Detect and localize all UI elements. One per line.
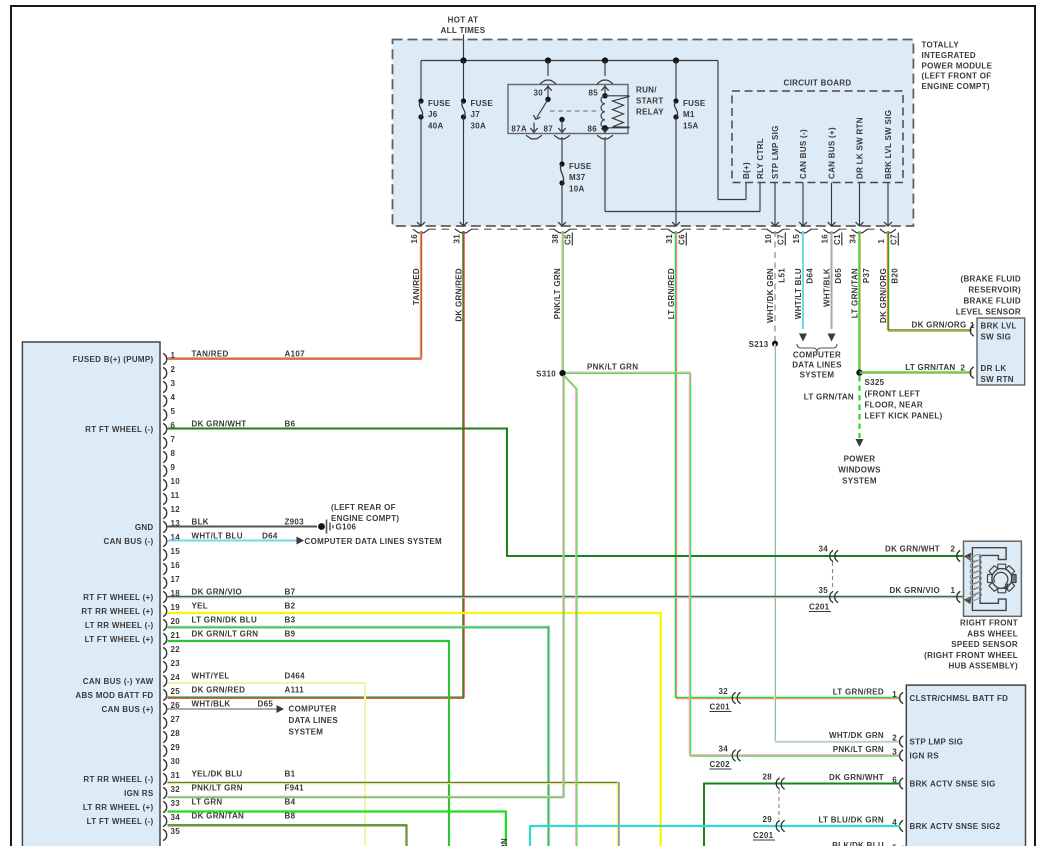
- TIPM name label: [922, 41, 993, 92]
- svg-text:30: 30: [171, 757, 181, 766]
- svg-text:2: 2: [951, 545, 956, 554]
- svg-text:FUSED B(+) (PUMP): FUSED B(+) (PUMP): [73, 355, 154, 364]
- svg-text:(LEFT REAR OF: (LEFT REAR OF: [331, 503, 396, 512]
- svg-text:LT GRN/DK BLU: LT GRN/DK BLU: [192, 615, 258, 624]
- relay coil terminal 86: [588, 125, 614, 139]
- relay terminal 87A: [511, 123, 542, 139]
- svg-text:85: 85: [589, 89, 599, 98]
- svg-text:DK GRN/ORG: DK GRN/ORG: [912, 321, 967, 330]
- svg-text:J7: J7: [471, 110, 481, 119]
- computer data lines system brace and label (top): [792, 344, 842, 380]
- svg-text:FUSE: FUSE: [683, 99, 706, 108]
- wire bus to B(+) of circuit board: [718, 61, 746, 200]
- wire label LT GRN/RED: [667, 268, 676, 319]
- svg-text:15A: 15A: [683, 122, 699, 131]
- circuit board pin label B(+): [742, 162, 751, 179]
- ABS module pin 19: [81, 601, 295, 616]
- svg-text:11: 11: [171, 491, 180, 500]
- junction block pin 4 BRK ACTV SNSE SIG2: [818, 815, 1000, 831]
- wire WHT/DK GRN dashed from TIPM 10 to S213: [774, 231, 776, 344]
- svg-text:RT RR WHEEL (-): RT RR WHEEL (-): [83, 775, 153, 784]
- svg-text:WHT/BLK: WHT/BLK: [192, 699, 231, 708]
- wire WHT/LT BLU pin14 to computer data lines: [168, 537, 442, 547]
- svg-text:34: 34: [719, 745, 729, 754]
- svg-text:(RIGHT FRONT WHEEL: (RIGHT FRONT WHEEL: [924, 651, 1018, 660]
- wire DK GRN/WHT offpage to pin6 BRK ACTV SNSE SIG: [704, 773, 901, 846]
- svg-text:SYSTEM: SYSTEM: [289, 728, 324, 737]
- svg-text:C5: C5: [564, 234, 573, 245]
- svg-text:PNK/LT GRN: PNK/LT GRN: [192, 783, 243, 792]
- svg-text:FUSE: FUSE: [471, 99, 494, 108]
- svg-text:LT GRN/TAN: LT GRN/TAN: [905, 363, 955, 372]
- circuit board pin label STP LMP SIG: [771, 125, 780, 179]
- svg-text:BRK ACTV SNSE SIG2: BRK ACTV SNSE SIG2: [910, 822, 1001, 831]
- fuse M1 15A: [672, 61, 706, 227]
- ABS module pin 15: [163, 547, 180, 561]
- splice S325: [856, 369, 942, 420]
- TIPM connector pin 15: [792, 229, 811, 243]
- wire DK GRN/VIO pin18 to RF wheel speed sensor pin1: [168, 586, 964, 598]
- svg-text:(FRONT LEFT: (FRONT LEFT: [865, 390, 921, 399]
- wire WHT/YEL pin24 down: [168, 682, 366, 846]
- svg-text:LT BLU/DK GRN: LT BLU/DK GRN: [818, 815, 884, 824]
- wire DK GRN/RED from TIPM 31 to ABS pin 25: [168, 231, 465, 698]
- svg-text:S213: S213: [749, 340, 769, 349]
- wheel sensor pin arcs: [957, 550, 960, 603]
- svg-text:GND: GND: [135, 523, 154, 532]
- ABS module pin 5: [163, 407, 175, 421]
- svg-text:SYSTEM: SYSTEM: [800, 371, 835, 380]
- ABS module pin 20: [85, 615, 296, 630]
- svg-text:23: 23: [171, 659, 181, 668]
- svg-text:C201: C201: [753, 831, 774, 840]
- svg-text:LT GRN/TAN: LT GRN/TAN: [850, 268, 859, 318]
- wire WHT/LT BLU from TIPM 15 to computer data lines: [799, 231, 807, 342]
- wire LT GRN/DK BLU pin20 down: [168, 626, 550, 846]
- svg-text:IGN RS: IGN RS: [124, 789, 154, 798]
- wire label WHT/DK GRN L51: [766, 268, 787, 323]
- svg-text:C6: C6: [678, 234, 687, 245]
- svg-text:LT GRN/RED: LT GRN/RED: [667, 268, 676, 319]
- svg-text:C7: C7: [777, 234, 786, 245]
- ABS module pin 17: [163, 575, 180, 589]
- svg-text:27: 27: [171, 715, 181, 724]
- svg-text:INTEGRATED: INTEGRATED: [922, 51, 976, 60]
- svg-text:RLY CTRL: RLY CTRL: [756, 138, 765, 179]
- svg-text:IGN RS: IGN RS: [910, 751, 940, 760]
- svg-text:31: 31: [453, 234, 462, 244]
- circuit board output wires to TIPM connector: [771, 183, 779, 227]
- wire BLK pin13 to ground G106: [168, 526, 318, 528]
- svg-text:DK GRN/ORG: DK GRN/ORG: [879, 268, 888, 323]
- svg-text:15: 15: [792, 234, 801, 244]
- junction dots on bus: [460, 57, 679, 63]
- TIPM connector pin 16: [410, 229, 429, 243]
- ABS module pin 25: [75, 685, 304, 700]
- svg-text:SW SIG: SW SIG: [981, 333, 1012, 342]
- wire label BLK/DK BLU (partial bottom): [832, 841, 903, 846]
- ABS module pin 10: [163, 477, 180, 491]
- svg-text:87: 87: [544, 125, 554, 134]
- svg-text:28: 28: [763, 773, 773, 782]
- wire label PNK/LT GRN: [553, 268, 562, 319]
- ABS module pin 11: [163, 491, 180, 505]
- svg-text:WHT/DK GRN: WHT/DK GRN: [829, 731, 884, 740]
- svg-text:29: 29: [171, 743, 181, 752]
- svg-text:LEVEL SENSOR: LEVEL SENSOR: [956, 308, 1021, 317]
- svg-text:SW RTN: SW RTN: [981, 375, 1014, 384]
- svg-text:D64: D64: [262, 531, 278, 540]
- svg-text:10: 10: [764, 234, 773, 244]
- svg-text:LT FT WHEEL (+): LT FT WHEEL (+): [85, 635, 154, 644]
- svg-text:1: 1: [892, 690, 897, 699]
- svg-text:STP LMP SIG: STP LMP SIG: [771, 125, 780, 179]
- svg-text:87A: 87A: [511, 125, 527, 134]
- wire DK GRN/TAN pin34 down: [168, 825, 408, 846]
- svg-text:DR LK SW RTN: DR LK SW RTN: [856, 117, 865, 179]
- ABS module pin 3: [163, 379, 175, 393]
- svg-text:B3: B3: [285, 615, 296, 624]
- ABS module pin 1: [73, 349, 305, 364]
- svg-text:40A: 40A: [428, 122, 444, 131]
- svg-text:D65: D65: [834, 268, 843, 284]
- relay terminal 30: [534, 61, 557, 103]
- ABS module pin 2: [163, 365, 175, 379]
- wire label TAN/RED: [412, 268, 421, 305]
- svg-text:WHT/BLK: WHT/BLK: [822, 268, 831, 307]
- svg-text:RELAY: RELAY: [636, 108, 664, 117]
- svg-text:BRK LVL SW SIG: BRK LVL SW SIG: [884, 110, 893, 179]
- svg-text:HOT AT: HOT AT: [448, 15, 479, 24]
- wire label LT GRN/TAN P37: [850, 268, 871, 318]
- svg-text:31: 31: [665, 234, 674, 244]
- svg-text:FLOOR, NEAR: FLOOR, NEAR: [865, 401, 923, 410]
- svg-text:24: 24: [171, 673, 181, 682]
- svg-text:BRK ACTV SNSE SIG: BRK ACTV SNSE SIG: [910, 779, 996, 788]
- svg-text:BRAKE FLUID: BRAKE FLUID: [963, 297, 1021, 306]
- wire PNK/LT GRN from TIPM 38 to splice S310: [562, 231, 563, 371]
- svg-text:86: 86: [588, 125, 598, 134]
- TIPM connector pin 31: [453, 229, 472, 243]
- svg-text:STP LMP SIG: STP LMP SIG: [910, 737, 964, 746]
- svg-text:COMPUTER: COMPUTER: [289, 705, 337, 714]
- svg-text:Z903: Z903: [285, 517, 305, 526]
- ABS module pin 22: [163, 645, 180, 659]
- svg-text:1: 1: [951, 586, 956, 595]
- svg-text:RESERVOIR): RESERVOIR): [968, 286, 1021, 295]
- ABS module pin 13: [135, 517, 304, 532]
- svg-text:DK GRN/WHT: DK GRN/WHT: [885, 545, 940, 554]
- svg-text:DK GRN/WHT: DK GRN/WHT: [829, 773, 884, 782]
- svg-text:S325: S325: [865, 378, 885, 387]
- ABS module pin 27: [163, 715, 180, 729]
- svg-text:DATA LINES: DATA LINES: [792, 361, 842, 370]
- wire label WHT/BLK D65: [822, 268, 843, 307]
- svg-text:15: 15: [171, 547, 181, 556]
- connector C201 inline on sensor wires: [809, 545, 838, 612]
- wire DK GRN/WHT pin6 to RF wheel speed sensor pin2: [168, 428, 964, 557]
- svg-text:B8: B8: [285, 811, 296, 820]
- svg-text:4: 4: [171, 393, 176, 402]
- fuse M37 10A: [558, 161, 592, 226]
- wire LT GRN/RED from TIPM 31 C6 to CLSTR/CHMSL BATT FD: [675, 231, 900, 699]
- wire WHT/BLK pin26 to computer data lines: [168, 705, 339, 737]
- svg-text:WHT/LT BLU: WHT/LT BLU: [794, 268, 803, 319]
- fuse J7 30A: [460, 61, 494, 227]
- svg-text:B9: B9: [285, 629, 296, 638]
- circuit board dashed box: [732, 91, 903, 183]
- TIPM connector pin 31 C6: [665, 229, 687, 245]
- svg-text:5: 5: [171, 407, 176, 416]
- ABS module pin 33: [83, 797, 296, 812]
- svg-text:COMPUTER: COMPUTER: [793, 351, 841, 360]
- fuse J6 40A: [417, 61, 451, 227]
- svg-text:C201: C201: [710, 703, 731, 712]
- svg-text:LT GRN: LT GRN: [500, 838, 509, 846]
- wire hot feed into TIPM: [463, 35, 465, 61]
- brake sensor pin 2 DR LK SW RTN: [970, 364, 1014, 384]
- TIPM connector pin 10 C7: [764, 229, 786, 245]
- junction block pin 2 STP LMP SIG: [829, 731, 963, 747]
- wire PNK/LT GRN S310 branch down offpage: [563, 376, 577, 846]
- svg-text:(LEFT FRONT OF: (LEFT FRONT OF: [922, 72, 992, 81]
- svg-text:LT GRN: LT GRN: [192, 797, 223, 806]
- svg-text:TAN/RED: TAN/RED: [412, 268, 421, 305]
- RF ABS wheel speed sensor box: [964, 541, 1022, 616]
- svg-text:DK GRN/TAN: DK GRN/TAN: [192, 811, 245, 820]
- connector C201 on pin1 wire: [710, 687, 741, 712]
- ABS module pin 28: [163, 729, 180, 743]
- svg-text:L51: L51: [778, 268, 787, 283]
- svg-text:D65: D65: [258, 699, 274, 708]
- svg-text:G106: G106: [336, 523, 357, 532]
- svg-text:B1: B1: [285, 769, 296, 778]
- svg-text:2: 2: [961, 364, 966, 373]
- svg-text:LT RR WHEEL (+): LT RR WHEEL (+): [83, 803, 154, 812]
- svg-text:3: 3: [892, 747, 897, 756]
- svg-text:CAN BUS (+): CAN BUS (+): [828, 127, 837, 179]
- svg-text:CAN BUS (-) YAW: CAN BUS (-) YAW: [83, 677, 154, 686]
- brake fluid level sensor box: [977, 318, 1025, 385]
- ABS module pin 32: [124, 783, 304, 798]
- svg-text:CAN BUS (-): CAN BUS (-): [799, 129, 808, 179]
- svg-text:DK GRN/RED: DK GRN/RED: [454, 268, 463, 322]
- svg-text:ABS MOD BATT FD: ABS MOD BATT FD: [75, 691, 153, 700]
- wire LT GRN/TAN from S325 to DR LK SW RTN: [860, 363, 972, 373]
- svg-text:(BRAKE FLUID: (BRAKE FLUID: [961, 275, 1021, 284]
- svg-text:32: 32: [719, 687, 729, 696]
- svg-text:WHT/DK GRN: WHT/DK GRN: [766, 268, 775, 323]
- svg-text:B(+): B(+): [742, 162, 751, 179]
- circuit board pin label RLY CTRL: [756, 138, 765, 179]
- svg-text:BRK LVL: BRK LVL: [981, 322, 1017, 331]
- svg-text:ABS WHEEL: ABS WHEEL: [967, 629, 1018, 638]
- svg-text:YEL: YEL: [192, 601, 208, 610]
- ABS module pin 26: [102, 699, 274, 714]
- svg-text:C201: C201: [809, 603, 830, 612]
- wire DK GRN/LT GRN pin21 down: [168, 640, 450, 846]
- svg-text:PNK/LT GRN: PNK/LT GRN: [833, 745, 884, 754]
- circuit board pin label BRK LVL SW SIG: [884, 110, 893, 179]
- TIPM connector pin 34: [849, 229, 868, 243]
- svg-text:A107: A107: [285, 349, 306, 358]
- circuit board pin label DR LK SW RTN: [856, 117, 865, 179]
- svg-text:16: 16: [171, 561, 181, 570]
- svg-text:ENGINE COMPT): ENGINE COMPT): [331, 514, 399, 523]
- ABS module pin 29: [163, 743, 180, 757]
- svg-text:1: 1: [171, 351, 176, 360]
- ABS module pin 16: [163, 561, 180, 575]
- junction block box (CLSTR/CHMSL): [906, 685, 1025, 846]
- svg-text:LT GRN/RED: LT GRN/RED: [833, 687, 884, 696]
- svg-text:21: 21: [171, 631, 181, 640]
- svg-text:C1: C1: [833, 234, 842, 245]
- svg-text:LT RR WHEEL (-): LT RR WHEEL (-): [85, 621, 154, 630]
- svg-text:CAN BUS (-): CAN BUS (-): [104, 537, 154, 546]
- svg-text:30: 30: [534, 89, 544, 98]
- relay mechanical link (dashed): [550, 110, 600, 112]
- svg-text:DATA LINES: DATA LINES: [289, 716, 339, 725]
- svg-text:P37: P37: [862, 268, 871, 283]
- connector C202 on pin3 wire: [710, 745, 741, 770]
- svg-text:8: 8: [171, 449, 176, 458]
- svg-text:DK GRN/WHT: DK GRN/WHT: [192, 419, 247, 428]
- circuit board pin label CAN BUS (-): [799, 129, 808, 179]
- wire relay 87 to fuse M37: [561, 137, 563, 164]
- svg-text:DK GRN/RED: DK GRN/RED: [192, 685, 246, 694]
- ground G106: [318, 503, 399, 534]
- ABS module pin 30: [163, 757, 180, 771]
- svg-text:34: 34: [819, 545, 829, 554]
- ABS control module box: [22, 342, 160, 846]
- svg-text:WHT/LT BLU: WHT/LT BLU: [192, 531, 243, 540]
- wire TAN/RED from TIPM 16 to ABS pin 1: [168, 231, 422, 359]
- svg-text:RIGHT FRONT: RIGHT FRONT: [960, 619, 1018, 628]
- svg-text:34: 34: [849, 234, 858, 244]
- svg-text:17: 17: [171, 575, 181, 584]
- relay coil terminal 85: [589, 61, 614, 99]
- wire PNK/LT GRN S310 to IGN RS: [566, 363, 901, 757]
- ABS module pin 6: [85, 419, 295, 434]
- wire YEL/DK BLU pin31 down: [168, 782, 620, 846]
- svg-text:S310: S310: [536, 370, 556, 379]
- wire WHT/DK GRN from S213 to STP LMP SIG: [775, 344, 901, 742]
- relay K1 RUN/START RELAY box: [508, 85, 664, 134]
- ABS module pin 7: [163, 435, 175, 449]
- svg-text:RT FT WHEEL (-): RT FT WHEEL (-): [85, 425, 153, 434]
- wire DK GRN/ORG from TIPM 1 C7 to BRK LVL SW SIG: [887, 231, 975, 331]
- ABS module pin 9: [163, 463, 175, 477]
- svg-text:DK GRN/LT GRN: DK GRN/LT GRN: [192, 629, 259, 638]
- svg-text:B4: B4: [285, 797, 296, 806]
- svg-text:RUN/: RUN/: [636, 86, 657, 95]
- junction block pin 6 BRK ACTV SNSE SIG: [829, 773, 996, 789]
- ABS module pin 12: [163, 505, 180, 519]
- wire WHT/BLK from TIPM 16 C1 to computer data lines: [828, 231, 836, 342]
- svg-text:CIRCUIT BOARD: CIRCUIT BOARD: [784, 79, 852, 88]
- svg-text:12: 12: [171, 505, 181, 514]
- splice S310: [536, 370, 566, 379]
- svg-text:WHT/YEL: WHT/YEL: [192, 671, 230, 680]
- ABS module pin 23: [163, 659, 180, 673]
- svg-text:B2: B2: [285, 601, 296, 610]
- svg-text:SYSTEM: SYSTEM: [842, 477, 877, 486]
- svg-text:2: 2: [892, 733, 897, 742]
- wire label DK GRN/RED: [454, 268, 463, 322]
- svg-text:D464: D464: [285, 671, 306, 680]
- svg-text:B6: B6: [285, 419, 296, 428]
- TIPM connector pin 1 C7: [877, 229, 899, 245]
- wire YEL pin19 down: [168, 612, 661, 846]
- svg-text:1: 1: [877, 239, 886, 244]
- svg-text:START: START: [636, 97, 664, 106]
- ABS module pin 24: [83, 671, 305, 686]
- svg-text:COMPUTER DATA LINES SYSTEM: COMPUTER DATA LINES SYSTEM: [305, 537, 442, 546]
- svg-text:31: 31: [171, 771, 181, 780]
- svg-text:POWER: POWER: [844, 455, 876, 464]
- power module U1 TIPM box: [393, 40, 914, 227]
- wire B+ bus inside TIPM: [421, 60, 718, 62]
- svg-text:38: 38: [551, 234, 560, 244]
- svg-text:35: 35: [819, 586, 829, 595]
- svg-text:25: 25: [171, 687, 181, 696]
- ABS module pin 21: [85, 629, 296, 644]
- svg-text:35: 35: [171, 827, 181, 836]
- svg-text:29: 29: [763, 815, 773, 824]
- relay coil winding (inductor bumps): [601, 96, 629, 128]
- brake fluid level sensor caption: [956, 275, 1021, 317]
- wheel speed sensor caption: [924, 619, 1018, 671]
- svg-text:DK GRN/VIO: DK GRN/VIO: [192, 587, 243, 596]
- svg-text:RT FT WHEEL (+): RT FT WHEEL (+): [83, 593, 153, 602]
- svg-text:PNK/LT GRN: PNK/LT GRN: [587, 363, 638, 372]
- svg-text:CAN BUS (+): CAN BUS (+): [102, 705, 154, 714]
- ABS module pin 35: [163, 827, 180, 841]
- svg-text:16: 16: [821, 234, 830, 244]
- svg-text:DK GRN/VIO: DK GRN/VIO: [889, 586, 940, 595]
- svg-text:30A: 30A: [471, 122, 487, 131]
- svg-text:YEL/DK BLU: YEL/DK BLU: [192, 769, 243, 778]
- svg-text:22: 22: [171, 645, 181, 654]
- svg-text:CLSTR/CHMSL BATT FD: CLSTR/CHMSL BATT FD: [910, 694, 1009, 703]
- ABS module pin 34: [87, 811, 296, 826]
- svg-text:B20: B20: [891, 268, 900, 284]
- svg-text:M1: M1: [683, 110, 695, 119]
- svg-text:20: 20: [171, 617, 181, 626]
- svg-text:9: 9: [171, 463, 176, 472]
- relay switch blade: [534, 99, 549, 119]
- svg-text:HUB ASSEMBLY): HUB ASSEMBLY): [948, 662, 1018, 671]
- junction block pin 1 CLSTR/CHMSL BATT FD: [833, 687, 1009, 703]
- brake sensor pin 1 BRK LVL SW SIG: [970, 322, 1016, 342]
- svg-text:ENGINE COMPT): ENGINE COMPT): [922, 82, 990, 91]
- svg-text:POWER MODULE: POWER MODULE: [922, 61, 993, 70]
- svg-text:7: 7: [171, 435, 176, 444]
- circuit board pin label CAN BUS (+): [828, 127, 837, 179]
- ABS module pin 14: [104, 531, 278, 546]
- svg-text:LEFT KICK PANEL): LEFT KICK PANEL): [865, 412, 943, 421]
- TIPM connector pin 16 C1: [821, 229, 843, 245]
- wire label DK GRN/ORG B20: [879, 268, 900, 323]
- ABS module pin 8: [163, 449, 175, 463]
- svg-text:TAN/RED: TAN/RED: [192, 349, 229, 358]
- svg-text:RT RR WHEEL (+): RT RR WHEEL (+): [81, 607, 153, 616]
- node POWER WINDOWS SYSTEM: [838, 455, 881, 486]
- svg-text:PNK/LT GRN: PNK/LT GRN: [553, 268, 562, 319]
- wire label WHT/LT BLU D64: [794, 268, 815, 320]
- svg-text:M37: M37: [569, 173, 586, 182]
- svg-text:A111: A111: [285, 685, 305, 694]
